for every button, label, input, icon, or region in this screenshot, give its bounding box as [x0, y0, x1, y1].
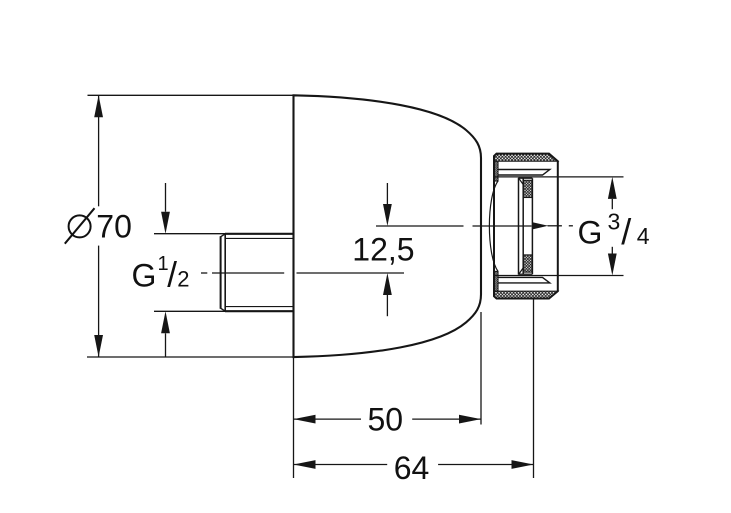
nut lip section bottom	[494, 271, 498, 291]
dimension G3/4 extension line bottom	[494, 275, 624, 277]
dimension 12,5 arrow up (to nipple axis)	[386, 295, 388, 316]
extension line right (x=533.5 for 64)	[533, 299, 535, 478]
nipple thread minor line top	[225, 237, 293, 239]
insert sleeve chamfer top	[519, 178, 524, 186]
svg-text:G: G	[132, 257, 157, 293]
insert sleeve chamfer bottom	[519, 267, 524, 275]
svg-text:/: /	[167, 256, 177, 295]
internal thread wedge top	[498, 170, 550, 176]
dimension 50 arrow left	[294, 415, 316, 424]
insert sleeve inner edge	[522, 178, 524, 274]
insert sleeve right edge	[531, 178, 533, 274]
svg-text:G: G	[578, 214, 603, 250]
svg-text:/: /	[621, 211, 631, 252]
insert sleeve cap top	[519, 177, 533, 179]
small thread pointer arrow on axis	[533, 222, 549, 229]
gasket section bottom	[523, 255, 532, 272]
svg-text:4: 4	[637, 223, 650, 249]
dimension G1/2 line top tail	[165, 183, 167, 212]
ball surface break line (wavy)	[489, 181, 498, 271]
dimension G3/4 line top	[611, 199, 613, 209]
dimension G1/2 arrow down	[161, 212, 170, 234]
nipple chamfer corner diagonal top	[221, 234, 226, 237]
label G 1/2	[132, 253, 190, 295]
nipple G1/2 top edge	[225, 233, 294, 235]
gasket section top	[523, 180, 532, 197]
dimension Ø70 extension line bottom	[87, 356, 294, 358]
dimension 64 arrow right	[512, 460, 534, 469]
nipple thread chamfer vertical	[224, 234, 226, 311]
dimension G3/4 arrow down	[608, 254, 617, 276]
extension line left (x=293.5 below body)	[293, 357, 295, 478]
centerline nipple axis	[201, 272, 404, 274]
svg-text:64: 64	[394, 450, 430, 486]
union nut outline	[494, 154, 558, 299]
nipple G1/2 bottom edge	[225, 310, 294, 312]
nipple thread minor line bottom	[225, 306, 293, 308]
dimension G3/4 arrow up	[608, 177, 617, 199]
svg-text:12,5: 12,5	[352, 231, 414, 267]
dimension Ø70 arrow down	[94, 335, 103, 357]
dimension 64 arrow left	[294, 460, 316, 469]
dimension 64 line	[294, 464, 534, 466]
svg-text:70: 70	[96, 209, 132, 245]
extension line mid (x=481 for 50)	[480, 312, 482, 425]
knurled band top	[494, 154, 558, 162]
label G 3/4	[578, 208, 650, 252]
dimension G1/2 extension line top	[154, 233, 225, 235]
nipple G1/2 end face	[220, 236, 222, 309]
dimension Ø70 extension line top	[88, 94, 295, 96]
dimension G3/4 extension line top	[494, 176, 624, 178]
dimension G1/2 extension line bottom	[154, 310, 225, 312]
dimension Ø70 arrow up	[94, 95, 103, 117]
dimension 50 line	[294, 418, 482, 420]
internal thread wedge bottom	[498, 277, 550, 283]
knurled band bottom	[494, 291, 558, 298]
dimension G1/2 line bottom tail	[165, 333, 167, 357]
dimension G3/4 line bottom	[611, 247, 613, 254]
nipple chamfer corner diagonal bottom	[221, 308, 226, 311]
dimension G1/2 arrow up	[161, 311, 170, 333]
insert sleeve left edge	[518, 178, 520, 275]
svg-text:50: 50	[368, 402, 404, 438]
nut lip section top	[494, 161, 498, 181]
svg-text:3: 3	[608, 208, 621, 234]
dimension Ø70 text	[65, 208, 132, 244]
svg-text:2: 2	[177, 267, 189, 292]
dimension 12,5 arrow down (to main axis)	[386, 183, 388, 204]
dimension Ø70 line	[98, 95, 100, 357]
centerline main axis	[376, 225, 573, 227]
insert sleeve cap bottom	[519, 273, 533, 275]
dimension 50 arrow right	[459, 415, 481, 424]
body outline (dome-shaped housing)	[294, 95, 482, 357]
